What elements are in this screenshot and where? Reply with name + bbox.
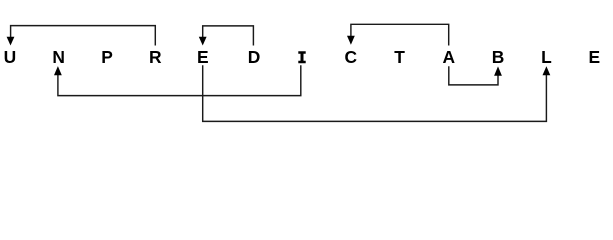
- svg-text:C: C: [345, 47, 358, 67]
- svg-text:U: U: [4, 47, 17, 67]
- svg-text:B: B: [492, 47, 505, 67]
- svg-text:L: L: [541, 47, 552, 67]
- svg-text:T: T: [394, 47, 405, 67]
- letter I (seriffed): [298, 51, 305, 63]
- arrow A to C (top bracket): [347, 24, 449, 45]
- svg-text:A: A: [443, 47, 456, 67]
- svg-text:N: N: [52, 47, 65, 67]
- svg-text:P: P: [101, 47, 113, 67]
- svg-text:D: D: [248, 47, 261, 67]
- arrow R to U (top bracket): [7, 26, 156, 46]
- arrow A to B (lower bracket): [449, 66, 502, 85]
- svg-text:E: E: [197, 47, 209, 67]
- arrow I to N (bottom path): [54, 65, 301, 95]
- svg-text:R: R: [149, 47, 162, 67]
- svg-text:E: E: [588, 47, 600, 67]
- arrow E to L (bottom path): [203, 65, 551, 121]
- arrow D to E (top bracket): [199, 26, 254, 46]
